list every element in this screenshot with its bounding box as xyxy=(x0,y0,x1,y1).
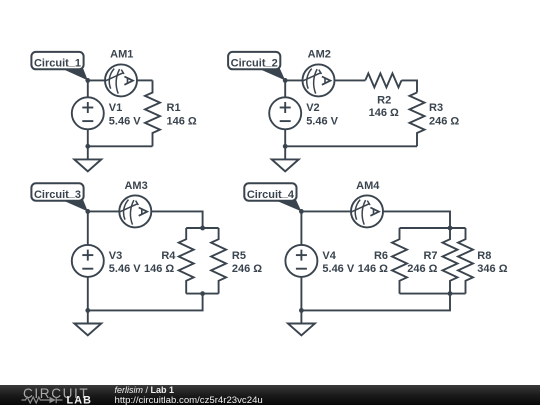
node junction xyxy=(299,209,304,214)
svg-text:R2: R2 xyxy=(377,94,391,106)
wire xyxy=(285,79,302,81)
svg-text:R1: R1 xyxy=(167,102,181,114)
wire xyxy=(87,80,89,97)
svg-text:Circuit_1: Circuit_1 xyxy=(34,56,81,69)
voltage source V2 xyxy=(269,97,301,129)
wire bank bottom bar xyxy=(186,293,218,295)
wire xyxy=(87,211,89,245)
ground xyxy=(288,310,315,335)
logo resistor-diode squiggle xyxy=(22,397,63,403)
svg-text:5.46 V: 5.46 V xyxy=(109,115,141,127)
svg-text:R7: R7 xyxy=(423,250,437,262)
svg-text:ferlisim / Lab 1: ferlisim / Lab 1 xyxy=(115,385,175,395)
wire xyxy=(402,80,418,92)
resistor R4 xyxy=(179,228,194,294)
node junction xyxy=(85,144,90,149)
svg-text:AM4: AM4 xyxy=(356,180,380,192)
svg-text:146 Ω: 146 Ω xyxy=(369,107,399,119)
svg-text:AM3: AM3 xyxy=(124,180,147,192)
svg-text:146 Ω: 146 Ω xyxy=(167,115,197,127)
resistor R2 xyxy=(365,73,401,87)
svg-text:AM2: AM2 xyxy=(308,48,331,60)
svg-text:http://circuitlab.com/cz5r4r23: http://circuitlab.com/cz5r4r23vc24u xyxy=(115,395,263,405)
svg-text:V3: V3 xyxy=(109,250,122,262)
net flag label Circuit_4 xyxy=(244,183,301,211)
node junction xyxy=(448,226,453,231)
ammeter AM4 xyxy=(351,195,383,227)
wire xyxy=(88,294,203,311)
wire xyxy=(87,129,89,146)
wire xyxy=(285,145,417,147)
resistor R5 xyxy=(211,228,226,294)
svg-text:V4: V4 xyxy=(322,250,336,262)
ammeter AM3 xyxy=(119,195,151,227)
svg-text:V1: V1 xyxy=(109,102,122,114)
svg-text:5.46 V: 5.46 V xyxy=(109,263,141,275)
wire xyxy=(301,294,450,311)
svg-text:V2: V2 xyxy=(306,102,319,114)
node junction xyxy=(85,308,90,313)
svg-text:R5: R5 xyxy=(232,250,246,262)
wire xyxy=(383,211,450,228)
net flag label Circuit_2 xyxy=(228,52,285,81)
svg-text:Circuit_2: Circuit_2 xyxy=(231,56,278,69)
ground xyxy=(74,310,101,335)
wire xyxy=(300,277,302,311)
svg-text:R4: R4 xyxy=(161,250,176,262)
resistor R3 xyxy=(410,93,425,147)
wire bank bottom bar xyxy=(400,293,466,295)
svg-text:LAB: LAB xyxy=(67,394,93,405)
resistor R6 xyxy=(392,228,407,294)
voltage source V4 xyxy=(285,245,317,277)
resistor R7 xyxy=(443,228,458,294)
ammeter AM1 xyxy=(105,64,137,96)
wire xyxy=(87,277,89,311)
wire xyxy=(88,210,120,212)
ground xyxy=(74,146,101,171)
wire xyxy=(137,79,153,81)
svg-text:246 Ω: 246 Ω xyxy=(232,263,262,275)
wire bank top bar xyxy=(400,227,466,229)
ground xyxy=(272,146,299,171)
wire xyxy=(284,80,286,97)
wire xyxy=(335,79,366,81)
wire xyxy=(88,79,105,81)
voltage source V3 xyxy=(72,245,104,277)
wire xyxy=(151,211,202,228)
svg-text:5.46 V: 5.46 V xyxy=(306,115,338,127)
net flag label Circuit_1 xyxy=(31,52,87,81)
svg-text:346 Ω: 346 Ω xyxy=(477,263,507,275)
svg-text:AM1: AM1 xyxy=(110,48,133,60)
svg-text:246 Ω: 246 Ω xyxy=(429,115,459,127)
node junction xyxy=(448,291,453,296)
node junction xyxy=(200,291,205,296)
svg-text:146 Ω: 146 Ω xyxy=(358,263,388,275)
wire bank top bar xyxy=(186,227,218,229)
ammeter AM2 xyxy=(303,64,335,96)
resistor R8 xyxy=(458,228,473,294)
resistor R1 xyxy=(145,80,160,146)
svg-text:R8: R8 xyxy=(477,250,491,262)
svg-text:246 Ω: 246 Ω xyxy=(407,263,437,275)
voltage source V1 xyxy=(72,97,104,129)
node junction xyxy=(283,144,288,149)
net flag label Circuit_3 xyxy=(31,183,87,211)
footer bar xyxy=(0,385,540,405)
node junction xyxy=(85,78,90,83)
svg-text:Circuit_3: Circuit_3 xyxy=(34,188,81,201)
node junction xyxy=(299,308,304,313)
node junction xyxy=(283,78,288,83)
wire xyxy=(300,211,302,245)
svg-text:146 Ω: 146 Ω xyxy=(144,263,174,275)
wire xyxy=(88,145,153,147)
svg-text:R6: R6 xyxy=(374,250,388,262)
svg-text:Circuit_4: Circuit_4 xyxy=(247,188,295,201)
wire xyxy=(301,210,351,212)
svg-text:R3: R3 xyxy=(429,102,443,114)
node junction xyxy=(85,209,90,214)
wire xyxy=(284,129,286,146)
node junction xyxy=(200,226,205,231)
svg-text:5.46 V: 5.46 V xyxy=(322,263,354,275)
